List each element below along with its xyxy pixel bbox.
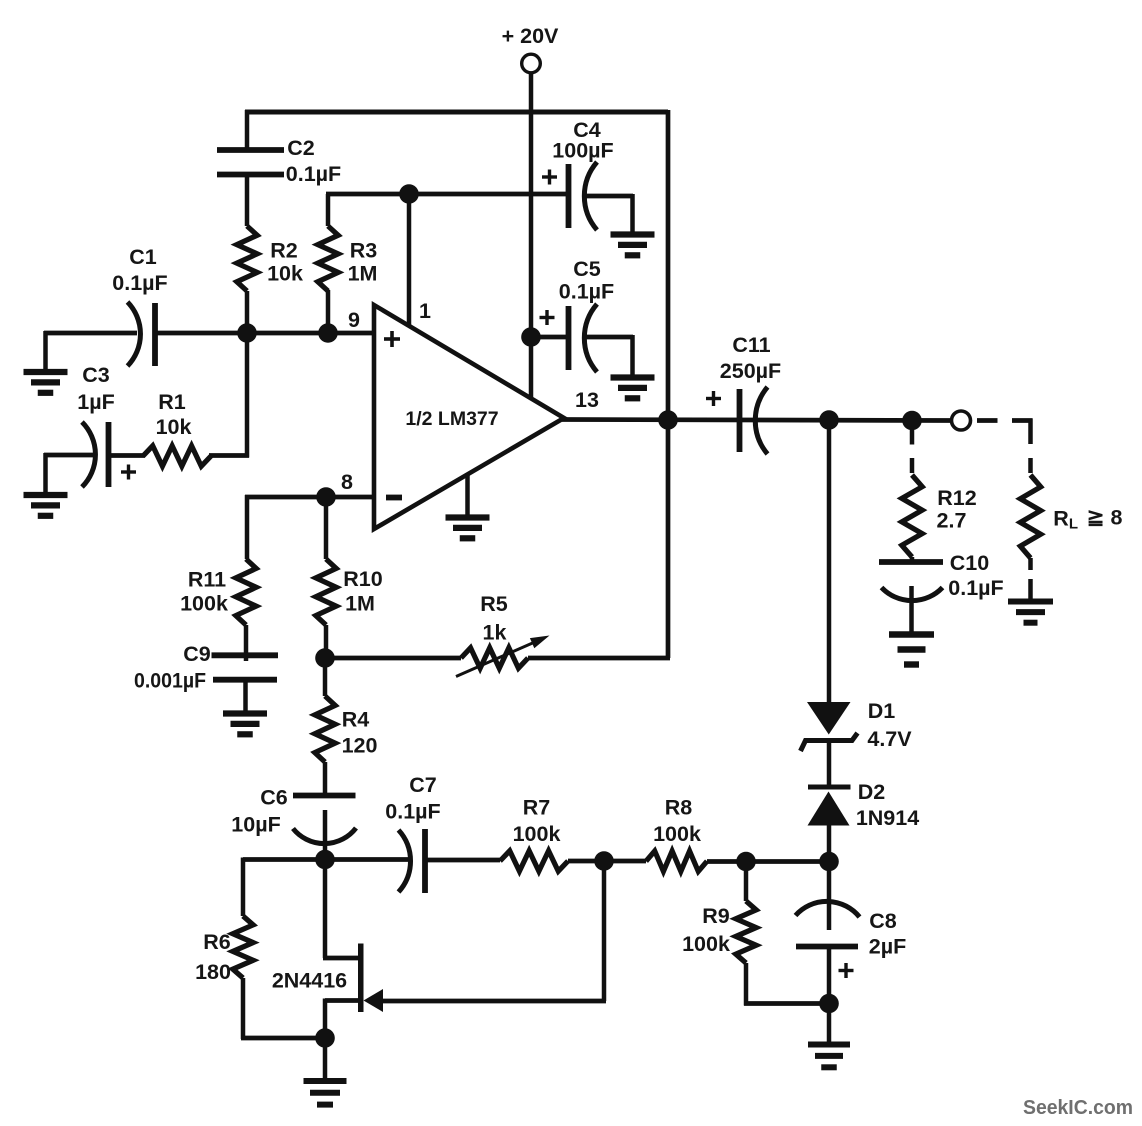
wire output to D1 [827, 420, 832, 703]
resistor R12 2.7 [902, 475, 922, 557]
svg-text:R12: R12 [937, 486, 976, 510]
svg-text:0.1µF: 0.1µF [112, 271, 167, 295]
wire C10 to ground stub [909, 586, 914, 634]
SeekIC.com watermark [1023, 1096, 1133, 1119]
capacitor C1 curved plate [128, 302, 141, 366]
wire R3 top to pin1 node [326, 194, 410, 226]
ground op-amp [446, 518, 490, 539]
svg-text:0.1µF: 0.1µF [385, 800, 440, 824]
svg-text:C10: C10 [950, 551, 989, 575]
svg-text:L: L [1069, 516, 1078, 533]
wire C9 to ground stub [243, 679, 248, 713]
resistor R10 label [343, 567, 382, 616]
svg-text:+ 20V: + 20V [502, 24, 559, 48]
junction node C5/supply [521, 327, 541, 347]
diode D2 1N914 bar [808, 785, 851, 790]
wire C2 top to feedback corner [245, 110, 250, 151]
op-amp label 1/2 LM377 [405, 408, 498, 430]
svg-text:100µF: 100µF [552, 139, 613, 163]
op-amp ground stub [465, 474, 470, 517]
capacitor C8 label [869, 909, 906, 959]
svg-text:100k: 100k [513, 822, 561, 846]
wire R3 bottom to input node [326, 290, 331, 334]
resistor R7 100k [500, 851, 568, 871]
capacitor C2 plates [217, 150, 284, 175]
wire dashed corner to RL [1012, 419, 1033, 445]
junction node output/feedback [658, 410, 678, 430]
capacitor C3 straight plate [106, 422, 112, 487]
junction node source/ground [315, 1028, 335, 1048]
resistor R11 label [180, 568, 228, 616]
svg-text:C11: C11 [732, 333, 770, 357]
capacitor C10 label [948, 551, 1003, 600]
wire output row [562, 420, 952, 421]
ground C4 [611, 235, 655, 256]
svg-text:10k: 10k [156, 415, 192, 439]
svg-text:R2: R2 [270, 239, 298, 263]
wire C5 node to plate [531, 335, 567, 340]
svg-text:C6: C6 [260, 786, 288, 810]
capacitor C9 label [134, 642, 211, 693]
wire R8 to D2 node [707, 859, 830, 864]
transistor Q1 gate arrow [364, 989, 384, 1012]
resistor R2 10k [237, 226, 257, 291]
svg-text:1M: 1M [345, 592, 375, 616]
resistor R1 10k [143, 446, 211, 466]
svg-text:9: 9 [348, 308, 360, 332]
wire pin 8 row [245, 495, 376, 559]
wire dashed output segment [977, 418, 998, 423]
svg-text:C2: C2 [287, 136, 315, 160]
svg-text:2µF: 2µF [869, 935, 906, 959]
svg-text:C9: C9 [183, 642, 211, 666]
junction node C8/R9 bottom [819, 994, 839, 1014]
capacitor C3 label [77, 363, 114, 414]
ground JFET source [304, 1081, 347, 1105]
wire R9 bottom corner [744, 963, 830, 1006]
svg-text:R: R [1053, 507, 1069, 531]
resistor R9 label [682, 904, 730, 956]
wire JFET drain [323, 858, 359, 958]
wire R9 top stub [744, 861, 749, 901]
wire R6 bottom to bottom row [241, 978, 326, 1039]
svg-text:2.7: 2.7 [937, 509, 967, 533]
capacitor C7 straight plate [422, 829, 428, 893]
svg-text:D1: D1 [868, 699, 896, 723]
ground C3 [24, 495, 68, 516]
resistor R9 100k [736, 901, 756, 963]
resistor R7 label [513, 796, 561, 847]
svg-text:100k: 100k [653, 822, 701, 846]
junction node R7/R8 gate [594, 851, 614, 871]
wire C7 to R7 [424, 858, 500, 863]
svg-text:R4: R4 [342, 708, 370, 732]
resistor R5 1k variable [461, 648, 528, 668]
capacitor C1 label [112, 245, 167, 295]
svg-text:0.1µF: 0.1µF [948, 576, 1003, 600]
svg-text:1N914: 1N914 [856, 806, 919, 830]
svg-text:120: 120 [342, 734, 378, 758]
wire R11 bottom to C9 [244, 625, 249, 661]
ground input C1 [24, 372, 68, 393]
svg-text:R3: R3 [350, 239, 378, 263]
svg-text:13: 13 [575, 388, 599, 412]
capacitor C6 curved plate [293, 828, 356, 844]
junction node input B (R3 bottom) [318, 323, 338, 343]
wire gate horizontal [382, 999, 606, 1004]
svg-text:≧: ≧ [1087, 506, 1105, 529]
svg-text:R6: R6 [203, 930, 231, 954]
wire C8 to bottom node [827, 946, 832, 1004]
wire RL bottom stub [1028, 558, 1033, 570]
svg-text:4.7V: 4.7V [867, 727, 912, 751]
capacitor C9 plates [212, 655, 279, 679]
capacitor C4 curved plate [584, 162, 597, 230]
svg-text:SeekIC.com: SeekIC.com [1023, 1096, 1133, 1119]
resistor R10 1M [316, 559, 336, 625]
resistor R3 1M [318, 226, 338, 291]
diode D1 zener 4.7V triangle [807, 702, 851, 735]
output terminal circle [952, 411, 971, 430]
op-amp inverting - symbol [386, 495, 402, 501]
capacitor C2 label [286, 136, 341, 186]
svg-text:1µF: 1µF [77, 390, 114, 414]
wire R7 to R8 segment [568, 859, 646, 864]
pin 1 label [419, 299, 431, 323]
capacitor C8 straight plate [796, 944, 858, 950]
svg-text:C1: C1 [129, 245, 157, 269]
resistor R1 label [156, 390, 192, 439]
wire feedback right vertical [666, 110, 671, 658]
wire +20V supply vertical [529, 72, 534, 398]
svg-text:0.1µF: 0.1µF [286, 162, 341, 186]
svg-text:R1: R1 [158, 390, 186, 414]
wire D1 to D2 [827, 740, 832, 788]
svg-text:R11: R11 [188, 568, 226, 592]
svg-text:2N4416: 2N4416 [272, 969, 347, 993]
wire bottom ground stub [323, 1037, 328, 1080]
junction node pin8/R10 [316, 487, 336, 507]
svg-text:100k: 100k [682, 932, 730, 956]
resistor R12 label [937, 486, 977, 533]
transistor Q1 label 2N4416 [272, 969, 347, 993]
capacitor C5 label [559, 257, 614, 304]
wire node to C8 [827, 861, 832, 930]
resistor R8 label [653, 796, 701, 847]
svg-text:8: 8 [341, 470, 353, 494]
diode D1 zener bar [801, 733, 858, 751]
resistor R2 label [267, 239, 303, 286]
diode D2 label [856, 780, 919, 830]
op-amp U1 1/2 LM377 triangle [374, 305, 564, 529]
capacitor C11 curved plate [755, 387, 767, 454]
wire dashed RL segment [1028, 458, 1033, 473]
svg-text:0.1µF: 0.1µF [559, 280, 614, 304]
+20V label [502, 24, 559, 48]
transistor Q1 2N4416 channel bar [358, 944, 364, 1013]
diode D2 triangle [808, 792, 850, 826]
capacitor C3 curved plate [82, 422, 95, 487]
capacitor C4 straight plate [566, 164, 572, 228]
capacitor C7 curved plate [399, 830, 411, 892]
junction node R8/R9 [736, 852, 756, 872]
resistor R3 label [348, 239, 378, 286]
wire C3 plate to R1 [110, 453, 145, 458]
wire RL ground dash [1028, 579, 1033, 599]
svg-text:0.001µF: 0.001µF [134, 669, 206, 693]
capacitor C10 straight plate [879, 559, 943, 565]
resistor R5 arrow [456, 636, 550, 677]
capacitor C4 label [552, 118, 613, 163]
wire dashed R12 segment 1 [910, 429, 915, 445]
capacitor C8 polarity + [839, 963, 854, 978]
capacitor C7 label [385, 773, 440, 824]
wire R10 top stub [324, 497, 329, 559]
svg-text:10µF: 10µF [231, 813, 280, 837]
resistor R6 label [195, 930, 231, 984]
capacitor C5 straight plate [566, 306, 572, 370]
svg-text:1/2 LM377: 1/2 LM377 [405, 408, 498, 430]
wire dashed R12 segment 2 [910, 458, 915, 473]
wire D2 to node [827, 824, 832, 862]
wire bottom node row left [243, 857, 412, 862]
pin 13 label [575, 388, 599, 412]
capacitor C5 curved plate [584, 304, 597, 372]
junction node C6/bottom row [315, 850, 335, 870]
wire R1 to input node corner [209, 333, 249, 458]
resistor R11 100k [236, 559, 256, 625]
svg-text:1M: 1M [348, 262, 378, 286]
pin 9 label [348, 308, 360, 332]
svg-text:10k: 10k [267, 262, 303, 286]
svg-text:R7: R7 [523, 796, 551, 820]
svg-text:8: 8 [1111, 506, 1123, 530]
capacitor C8 curved plate [796, 901, 860, 917]
wire C2 bottom to R2 top [245, 173, 250, 226]
capacitor C11 straight plate [737, 389, 743, 452]
svg-text:C5: C5 [573, 257, 601, 281]
junction node D2/C8 [819, 852, 839, 872]
pin 8 label [341, 470, 353, 494]
ground C8 [808, 1045, 850, 1068]
resistor R4 120 [315, 696, 335, 762]
wire input node row (pin 9) [154, 331, 376, 336]
resistor R6 180 [233, 916, 253, 978]
svg-text:250µF: 250µF [720, 359, 781, 383]
ground C5 [611, 378, 655, 399]
wire R5 row right to feedback [528, 656, 670, 661]
wire C3 left [44, 453, 93, 494]
wire C6 curved plate to bottom node [323, 810, 328, 861]
junction node output/R12 [902, 411, 922, 431]
wire C5 to ground corner [585, 335, 633, 376]
resistor RL label [1053, 506, 1122, 533]
wire top feedback horizontal [245, 110, 668, 115]
svg-text:C8: C8 [869, 909, 897, 933]
capacitor C6 straight plate [293, 793, 356, 799]
svg-text:D2: D2 [858, 780, 886, 804]
wire C8 ground stub [827, 1002, 832, 1044]
resistor R8 100k [646, 851, 707, 871]
wire R2 bottom to input node [245, 291, 250, 334]
junction node R10/R4/R5 [315, 648, 335, 668]
svg-text:1k: 1k [483, 621, 507, 645]
capacitor C6 label [231, 786, 288, 837]
capacitor C5 polarity + [540, 310, 555, 325]
svg-text:R9: R9 [702, 904, 730, 928]
junction node output/D1 [819, 410, 839, 430]
resistor R4 label [342, 708, 378, 758]
wire left col down to R6 [241, 858, 246, 917]
svg-text:R8: R8 [665, 796, 693, 820]
svg-text:C3: C3 [82, 363, 110, 387]
wire R4 bottom to C6 plate [323, 762, 328, 796]
diode D1 label [867, 699, 912, 751]
wire C4 to ground corner [585, 194, 633, 234]
capacitor C11 label [720, 333, 781, 383]
wire gate column vertical [602, 861, 607, 1001]
wire R12 bottom to C10 [910, 557, 915, 562]
ground RL load [1008, 602, 1053, 623]
op-amp non-inverting + symbol [384, 331, 400, 347]
capacitor C10 curved plate [882, 588, 943, 601]
junction node input A (pin9/R2) [237, 323, 257, 343]
svg-text:R5: R5 [480, 592, 508, 616]
wire pin 1 vertical [407, 192, 412, 326]
junction node pin1/R3 [399, 184, 419, 204]
capacitor C3 polarity + [121, 465, 136, 480]
resistor R5 label [480, 592, 508, 645]
svg-text:100k: 100k [180, 592, 228, 616]
capacitor C11 polarity + [706, 391, 721, 406]
svg-text:1: 1 [419, 299, 431, 323]
svg-text:R10: R10 [343, 567, 382, 591]
wire R5 row left [325, 656, 461, 661]
wire JFET source [325, 999, 359, 1040]
capacitor C4 polarity + [542, 170, 557, 185]
svg-text:180: 180 [195, 960, 231, 984]
wire R4 top stub [323, 657, 328, 696]
capacitor C1 straight plate [152, 303, 158, 366]
svg-text:C7: C7 [409, 773, 437, 797]
resistor RL load [1020, 475, 1040, 558]
wire R10 bottom stub [324, 625, 329, 659]
wire pin1 node to C4 [409, 192, 567, 197]
ground C9 [223, 714, 267, 735]
ground C10 [889, 635, 934, 665]
+20V terminal circle [522, 54, 541, 73]
wire source input left segment [44, 331, 137, 371]
